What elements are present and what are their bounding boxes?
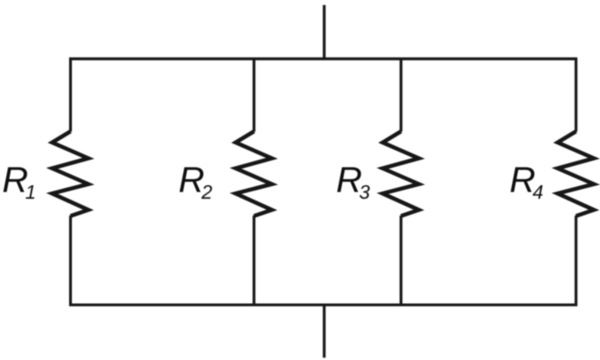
resistor R2	[236, 131, 272, 216]
label R1	[3, 167, 34, 198]
resistor R1	[52, 131, 88, 216]
resistor R3	[383, 131, 419, 216]
wire bottom supply stub	[323, 305, 326, 358]
wire branch 2 lower	[253, 216, 256, 305]
wire top bus	[71, 59, 577, 132]
wire branch 3 lower	[400, 216, 403, 305]
wire top supply stub	[323, 5, 326, 59]
wire branch 3 upper	[400, 59, 403, 132]
wire bottom bus	[71, 216, 577, 305]
label R2	[180, 167, 212, 198]
label R4	[511, 167, 543, 198]
wire branch 2 upper	[253, 59, 256, 132]
resistor R4	[558, 131, 594, 216]
label R3	[337, 167, 370, 199]
